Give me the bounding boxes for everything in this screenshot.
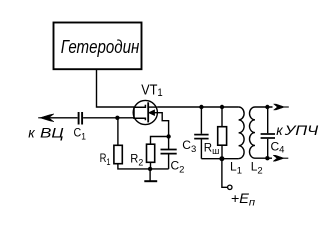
wire R1 bottom [118,164,169,169]
svg-text:R1: R1 [100,151,111,168]
wire R2 bottom [150,162,152,169]
wire +Ep tap [222,159,228,188]
node C3 top [199,105,203,109]
svg-text:C2: C2 [171,158,185,175]
svg-text:УПЧ: УПЧ [284,123,319,138]
resistor R2 [147,144,155,162]
capacitor C1 [79,112,83,125]
wire heterodyne output [97,70,135,107]
svg-text:к: к [28,125,35,140]
resistor Rsh [218,107,227,159]
arrow to UPCh bottom [273,155,284,161]
arrow to VC (left) [40,114,54,122]
ground [144,169,157,181]
heterodyne block G [54,23,142,70]
node Ep junction [219,156,224,161]
svg-text:R2: R2 [130,151,143,168]
svg-text:L2: L2 [251,160,263,177]
resistor R1 [114,145,122,163]
wire output top arrow stub [284,106,289,108]
svg-text:ВЦ: ВЦ [40,125,64,140]
wire output bottom arrow stub [284,157,289,159]
wire gate node to R1 [117,118,119,146]
svg-text:к: к [276,123,283,138]
node Rsh top [220,105,224,109]
node gate junction [115,116,119,120]
svg-text:VT1: VT1 [141,82,162,99]
wire C1 to gate [83,117,134,119]
svg-text:C1: C1 [74,125,86,142]
wire R2 top to source node [151,137,169,145]
node source junction [166,134,170,138]
transistor VT1 [133,100,168,149]
node ground junction [148,167,152,171]
wire C2 bottom [168,154,170,169]
wire input arrow stub [38,117,42,119]
wire L2 top to output [255,106,273,108]
terminal +Ep [228,185,232,189]
inductor L2 [250,107,256,158]
wire L2 bottom to output [255,157,272,159]
wire input from antenna circuit [42,117,78,119]
svg-text:C4: C4 [271,140,285,156]
inductor L1 [239,107,245,159]
svg-text:C3: C3 [182,138,196,155]
arrow to UPCh top [274,104,285,110]
capacitor C2 [161,150,177,154]
node C4 bottom [265,156,269,160]
wire tank bottom [201,158,238,160]
capacitor C3 [194,107,208,159]
svg-text:L1: L1 [230,160,242,177]
wire drain to tank top [157,106,238,108]
capacitor C4 [261,107,275,158]
node C4 top [265,105,269,109]
svg-text:+Eп: +Eп [231,191,255,209]
svg-text:Гетеродин: Гетеродин [61,36,140,57]
